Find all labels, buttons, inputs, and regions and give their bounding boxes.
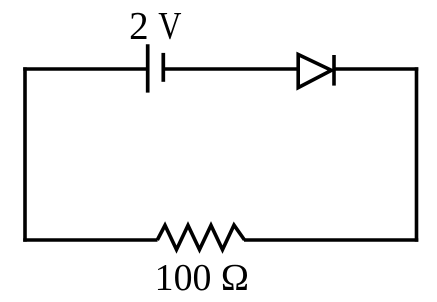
- svg-text:100 Ω: 100 Ω: [155, 257, 249, 299]
- wire right side: [415, 67, 419, 242]
- wire diode to top-right corner: [334, 67, 418, 71]
- diode D1 triangle (anode): [298, 55, 331, 88]
- svg-text:2: 2: [129, 5, 149, 48]
- battery 2 V (long plate = positive terminal): [146, 44, 150, 92]
- battery 2 V (short plate = negative terminal): [161, 53, 165, 82]
- svg-text:V: V: [158, 5, 181, 48]
- wire left side: [23, 67, 27, 242]
- diode D1 cathode bar: [332, 55, 336, 86]
- wire battery to diode: [163, 67, 298, 71]
- wire bottom-right segment (right corner to resistor): [244, 238, 418, 242]
- resistor 100 ohm zigzag: [157, 225, 244, 250]
- wire top-left segment (left corner to battery): [23, 67, 148, 71]
- wire bottom-left segment (resistor to left corner): [23, 238, 157, 242]
